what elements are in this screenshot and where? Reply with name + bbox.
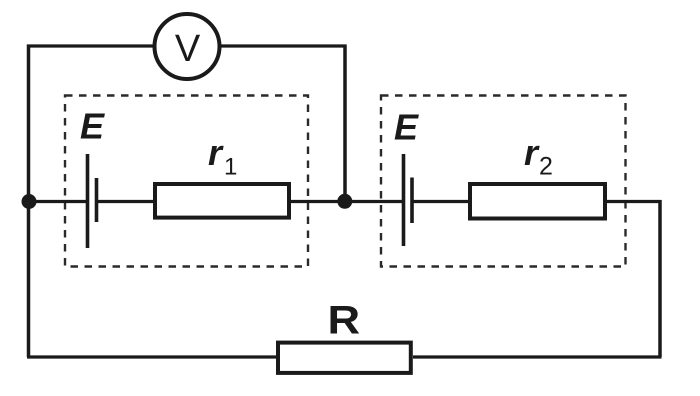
wire: battery 2 to resistor r2	[412, 200, 470, 203]
svg-text:R: R	[328, 298, 361, 343]
wire: bottom right segment	[413, 355, 662, 358]
dashed box: cell 1 enclosure	[65, 96, 308, 267]
label r2	[524, 132, 553, 181]
svg-text:r: r	[208, 132, 224, 173]
resistor r2	[470, 184, 605, 219]
svg-text:2: 2	[539, 153, 553, 181]
wire: top horizontal right segment	[221, 44, 347, 47]
wire: left vertical branch	[27, 45, 31, 358]
wire: top horizontal left segment	[27, 44, 154, 47]
battery cell E2: long plate	[402, 154, 406, 246]
battery cell E2: short plate	[410, 178, 414, 224]
wire: right vertical branch	[658, 200, 662, 357]
label r1	[208, 132, 237, 181]
resistor r1	[155, 184, 289, 218]
svg-text:r: r	[524, 132, 540, 173]
wire: vertical drop to middle node	[343, 45, 347, 202]
label R	[328, 298, 361, 343]
voltmeter V	[155, 14, 220, 79]
wire: node A to battery 1	[29, 200, 86, 203]
wire: resistor r1 to node B	[291, 200, 345, 203]
node A (left junction)	[22, 194, 37, 209]
resistor R	[278, 343, 411, 373]
wire: bottom left segment	[27, 355, 277, 358]
svg-text:E: E	[394, 107, 419, 148]
dashed box: cell 2 enclosure	[381, 96, 626, 267]
battery cell E1: short plate	[95, 178, 99, 222]
svg-text:E: E	[80, 106, 105, 147]
battery cell E1: long plate	[86, 154, 90, 248]
wire: resistor r2 to right branch	[607, 200, 662, 203]
wire: battery 1 to resistor r1	[97, 200, 154, 203]
wire: node B to battery 2	[345, 200, 402, 203]
node B (middle junction)	[337, 194, 352, 209]
svg-text:V: V	[175, 28, 201, 70]
svg-text:1: 1	[224, 154, 237, 181]
